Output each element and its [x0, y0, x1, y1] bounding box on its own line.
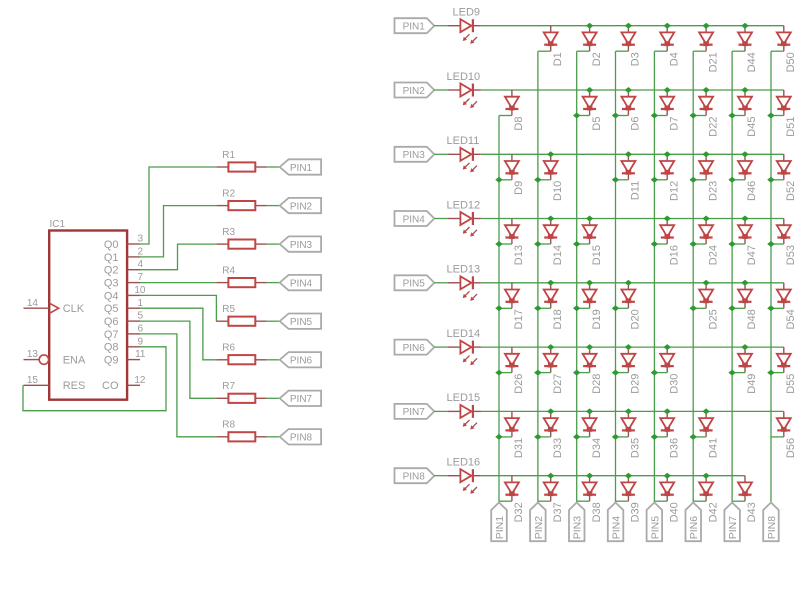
diode D42	[699, 476, 719, 523]
junction	[625, 408, 632, 414]
svg-text:PIN6: PIN6	[403, 343, 426, 354]
wire D8 cathode jog	[499, 115, 512, 117]
svg-text:D28: D28	[591, 374, 603, 394]
wire D51 cathode jog	[771, 115, 784, 117]
node PIN4 output flag	[280, 275, 321, 290]
node PIN8 output flag	[280, 429, 321, 444]
svg-text:Q3: Q3	[104, 277, 119, 289]
svg-text:D10: D10	[552, 181, 564, 201]
LED LED10	[447, 71, 481, 108]
junction	[573, 241, 580, 247]
resistor R6	[216, 343, 266, 365]
svg-text:6: 6	[137, 323, 143, 334]
wire D41 cathode jog	[693, 436, 706, 438]
svg-text:D33: D33	[552, 438, 564, 458]
diode D3	[621, 26, 641, 67]
diode D18	[544, 283, 564, 330]
wire D40 cathode jog	[654, 500, 667, 502]
diode D22	[699, 90, 719, 137]
svg-text:D41: D41	[707, 438, 719, 458]
node PIN6 column flag	[686, 503, 702, 542]
wire R5 to PIN5	[267, 320, 280, 322]
wire D15 cathode jog	[577, 243, 590, 245]
wire D4 cathode jog	[654, 50, 667, 52]
svg-text:D22: D22	[707, 117, 719, 137]
junction	[612, 305, 619, 311]
wire D42 cathode jog	[693, 500, 706, 502]
svg-text:D38: D38	[591, 502, 603, 522]
svg-text:LED9: LED9	[453, 7, 481, 19]
junction	[702, 408, 709, 414]
svg-text:D29: D29	[630, 374, 642, 394]
svg-text:D15: D15	[591, 245, 603, 265]
junction	[690, 177, 698, 183]
diode D34	[583, 411, 603, 458]
junction	[573, 305, 580, 311]
svg-text:Q0: Q0	[104, 239, 119, 251]
diode D55	[777, 347, 797, 394]
wire PIN4 flag to LED12	[434, 218, 448, 220]
junction	[612, 177, 619, 183]
svg-text:D31: D31	[513, 438, 525, 458]
wire D24 cathode jog	[693, 243, 706, 245]
wire D56 cathode jog	[771, 436, 784, 438]
junction	[495, 241, 502, 247]
svg-text:14: 14	[27, 298, 39, 309]
wire D12 cathode jog	[654, 179, 667, 181]
wire D55 cathode jog	[771, 372, 784, 374]
pin 4 (Q2)	[127, 259, 143, 270]
svg-text:D7: D7	[669, 117, 681, 131]
wire D46 cathode jog	[732, 179, 745, 181]
wire D50 cathode jog	[771, 50, 784, 52]
svg-text:D55: D55	[785, 374, 797, 394]
node PIN1 row flag	[395, 18, 435, 33]
diode D47	[738, 219, 758, 266]
diode D38	[583, 476, 603, 523]
svg-text:D46: D46	[746, 181, 758, 201]
pin 6 (Q7)	[127, 323, 143, 334]
junction	[728, 305, 735, 311]
wire Q4 to R5	[140, 295, 216, 321]
svg-text:D18: D18	[552, 309, 564, 329]
diode D51	[777, 90, 797, 137]
svg-text:D24: D24	[707, 245, 719, 265]
node PIN5 row flag	[395, 275, 435, 290]
diode D8	[505, 90, 525, 131]
pin 2 (Q1)	[127, 246, 143, 257]
junction	[586, 473, 593, 479]
svg-text:D8: D8	[513, 117, 525, 131]
wire column 6	[692, 51, 694, 502]
svg-text:Q4: Q4	[104, 290, 119, 302]
svg-text:3: 3	[137, 234, 143, 245]
LED LED15	[447, 392, 481, 429]
pin 11 (Q9)	[127, 349, 146, 360]
wire D33 cathode jog	[538, 436, 551, 438]
svg-text:PIN3: PIN3	[290, 240, 313, 251]
IC IC1 decade counter body	[49, 219, 127, 400]
pin 3 (Q0)	[127, 234, 143, 245]
diode D30	[660, 347, 680, 394]
svg-text:D40: D40	[669, 502, 681, 522]
junction	[728, 241, 735, 247]
junction	[612, 370, 619, 376]
pin 15 (RES)	[24, 375, 50, 386]
wire D47 cathode jog	[732, 243, 745, 245]
svg-text:D44: D44	[746, 52, 758, 72]
svg-text:D43: D43	[746, 502, 758, 522]
svg-text:D53: D53	[785, 245, 797, 265]
wire Q1 to R2	[140, 206, 216, 257]
svg-text:LED16: LED16	[447, 457, 481, 469]
svg-text:R3: R3	[222, 227, 235, 238]
svg-text:D50: D50	[785, 52, 797, 72]
junction	[651, 113, 658, 119]
svg-text:D45: D45	[746, 117, 758, 137]
pin 13 (ENA) with inverter bubble	[24, 349, 49, 364]
wire column 3	[576, 51, 578, 502]
svg-text:PIN5: PIN5	[290, 317, 313, 328]
svg-text:D36: D36	[669, 438, 681, 458]
node PIN3 output flag	[280, 236, 321, 251]
svg-text:D49: D49	[746, 374, 758, 394]
junction	[651, 241, 658, 247]
junction	[702, 216, 709, 222]
wire D28 cathode jog	[577, 372, 590, 374]
junction	[625, 151, 632, 157]
svg-text:D27: D27	[552, 374, 564, 394]
svg-text:4: 4	[137, 259, 143, 270]
svg-text:7: 7	[137, 272, 143, 283]
diode D21	[699, 26, 719, 73]
svg-text:PIN3: PIN3	[572, 516, 584, 540]
svg-text:D54: D54	[785, 309, 797, 329]
diode D36	[660, 411, 680, 458]
diode D26	[505, 347, 525, 394]
svg-text:PIN1: PIN1	[403, 22, 426, 33]
node PIN7 column flag	[724, 503, 740, 542]
node PIN1 column flag	[491, 503, 507, 542]
wire D23 cathode jog	[693, 179, 706, 181]
svg-text:D35: D35	[630, 438, 642, 458]
pin 10 (Q4)	[127, 285, 146, 296]
junction	[728, 370, 735, 376]
svg-text:PIN2: PIN2	[533, 516, 545, 540]
node PIN7 row flag	[395, 404, 435, 419]
node PIN4 column flag	[608, 503, 624, 542]
wire Q8 to RES feedback	[23, 347, 166, 411]
diode D25	[699, 283, 719, 330]
svg-text:D4: D4	[669, 52, 681, 66]
diode D27	[544, 347, 564, 394]
svg-text:D48: D48	[746, 309, 758, 329]
wire D49 cathode jog	[732, 372, 745, 374]
svg-text:Q5: Q5	[104, 303, 119, 315]
wire D37 cathode jog	[538, 500, 551, 502]
svg-text:11: 11	[135, 349, 146, 360]
junction	[547, 280, 554, 286]
junction	[664, 408, 672, 414]
wire D11 cathode jog	[616, 179, 629, 181]
junction	[741, 87, 749, 93]
diode D9	[505, 154, 525, 195]
wire D21 cathode jog	[693, 50, 706, 52]
diode D12	[660, 154, 680, 201]
svg-text:PIN2: PIN2	[290, 201, 313, 212]
svg-text:D13: D13	[513, 245, 525, 265]
svg-text:12: 12	[134, 375, 146, 386]
wire D17 cathode jog	[499, 307, 512, 309]
svg-text:D42: D42	[707, 502, 719, 522]
junction	[573, 434, 580, 440]
junction	[534, 434, 542, 440]
svg-text:R4: R4	[222, 265, 235, 276]
wire R3 to PIN3	[267, 243, 280, 245]
junction	[586, 344, 593, 350]
junction	[664, 23, 672, 29]
junction	[690, 113, 698, 119]
diode D4	[660, 26, 680, 67]
svg-text:LED14: LED14	[447, 328, 481, 340]
node PIN2 column flag	[530, 503, 546, 542]
wire D3 cathode jog	[616, 50, 629, 52]
junction	[702, 23, 709, 29]
svg-text:D1: D1	[552, 52, 564, 66]
svg-text:R6: R6	[222, 343, 235, 354]
resistor R3	[216, 227, 266, 249]
junction	[741, 344, 749, 350]
diode D37	[544, 476, 564, 523]
svg-text:D32: D32	[513, 502, 525, 522]
junction	[495, 305, 502, 311]
junction	[495, 177, 502, 183]
junction	[625, 344, 632, 350]
svg-text:D37: D37	[552, 502, 564, 522]
junction	[664, 344, 672, 350]
node PIN8 column flag	[763, 503, 779, 542]
svg-text:PIN5: PIN5	[649, 516, 661, 540]
svg-text:ENA: ENA	[63, 355, 86, 367]
diode D13	[505, 219, 525, 266]
svg-text:LED13: LED13	[447, 264, 481, 276]
svg-text:LED11: LED11	[447, 135, 480, 147]
wire R4 to PIN4	[267, 282, 280, 284]
node PIN5 column flag	[647, 503, 663, 542]
wire PIN1 flag to LED9	[434, 25, 448, 27]
junction	[664, 151, 672, 157]
wire row 5	[481, 282, 784, 284]
resistor R1	[216, 150, 266, 172]
svg-text:LED15: LED15	[447, 392, 481, 404]
wire D35 cathode jog	[616, 436, 629, 438]
wire D26 cathode jog	[499, 372, 512, 374]
wire column 4	[615, 51, 617, 502]
svg-text:D12: D12	[669, 181, 681, 201]
junction	[690, 305, 698, 311]
junction	[534, 177, 542, 183]
wire D9 cathode jog	[499, 179, 512, 181]
svg-text:D26: D26	[513, 374, 525, 394]
junction	[664, 216, 672, 222]
svg-text:PIN1: PIN1	[290, 163, 313, 174]
junction	[625, 23, 632, 29]
diode D6	[621, 90, 641, 131]
svg-text:Q1: Q1	[104, 252, 119, 264]
resistor R8	[216, 420, 266, 442]
pin 1 (Q5)	[127, 298, 143, 309]
wire Q5 to R6	[140, 308, 216, 360]
svg-text:D25: D25	[707, 309, 719, 329]
wire D36 cathode jog	[654, 436, 667, 438]
wire D52 cathode jog	[771, 179, 784, 181]
wire row 1	[481, 25, 784, 27]
junction	[586, 87, 593, 93]
diode D17	[505, 283, 525, 330]
junction	[690, 241, 698, 247]
junction	[495, 370, 502, 376]
wire R6 to PIN6	[267, 359, 280, 361]
node PIN5 output flag	[280, 314, 321, 329]
junction	[573, 113, 580, 119]
wire Q7 to R8	[140, 334, 216, 437]
resistor R2	[216, 188, 266, 210]
diode D32	[505, 476, 525, 523]
svg-text:PIN8: PIN8	[290, 433, 313, 444]
svg-text:PIN8: PIN8	[766, 516, 778, 540]
junction	[573, 370, 580, 376]
svg-text:13: 13	[27, 349, 39, 360]
diode D50	[777, 26, 797, 73]
node PIN1 output flag	[280, 159, 321, 174]
junction	[651, 434, 658, 440]
wire column 8	[770, 51, 772, 502]
svg-text:D5: D5	[591, 117, 603, 131]
junction	[664, 473, 672, 479]
wire D27 cathode jog	[538, 372, 551, 374]
wire R2 to PIN2	[267, 205, 280, 207]
node PIN3 column flag	[569, 503, 585, 542]
junction	[741, 216, 749, 222]
junction	[767, 177, 775, 183]
svg-text:PIN3: PIN3	[403, 150, 426, 161]
junction	[702, 87, 709, 93]
junction	[767, 113, 775, 119]
wire row 3	[481, 153, 784, 155]
junction	[741, 23, 749, 29]
junction	[586, 408, 593, 414]
svg-text:PIN6: PIN6	[290, 356, 313, 367]
node PIN7 output flag	[280, 391, 321, 406]
svg-text:PIN1: PIN1	[494, 516, 506, 540]
junction	[586, 23, 593, 29]
diode D14	[544, 219, 564, 266]
svg-text:CO: CO	[102, 380, 119, 392]
wire D22 cathode jog	[693, 115, 706, 117]
svg-text:PIN2: PIN2	[403, 86, 426, 97]
junction	[767, 305, 775, 311]
wire Q6 to R7	[140, 321, 216, 398]
wire Q3 to R4	[140, 282, 216, 284]
svg-text:PIN4: PIN4	[290, 278, 313, 289]
svg-text:D21: D21	[707, 52, 719, 72]
node PIN8 row flag	[395, 468, 435, 483]
junction	[651, 177, 658, 183]
node PIN4 row flag	[395, 211, 435, 226]
svg-text:IC1: IC1	[50, 219, 66, 230]
diode D39	[621, 476, 641, 523]
wire row 7	[481, 410, 784, 412]
junction	[547, 408, 554, 414]
junction	[534, 305, 542, 311]
svg-text:RES: RES	[63, 380, 86, 392]
junction	[625, 280, 632, 286]
diode D16	[660, 219, 680, 266]
wire D7 cathode jog	[654, 115, 667, 117]
wire R7 to PIN7	[267, 397, 280, 399]
junction	[547, 151, 554, 157]
junction	[547, 344, 554, 350]
diode D5	[583, 90, 603, 131]
node PIN2 output flag	[280, 198, 321, 213]
wire D1 cathode jog	[538, 50, 551, 52]
junction	[728, 113, 735, 119]
diode D45	[738, 90, 758, 137]
svg-text:D14: D14	[552, 245, 564, 265]
diode D44	[738, 26, 758, 73]
diode D28	[583, 347, 603, 394]
svg-text:D23: D23	[707, 181, 719, 201]
svg-text:PIN6: PIN6	[688, 516, 700, 540]
diode D29	[621, 347, 641, 394]
wire row 4	[481, 218, 784, 220]
wire column 5	[653, 51, 655, 502]
svg-text:D51: D51	[785, 117, 797, 137]
svg-text:PIN4: PIN4	[610, 516, 622, 540]
pin 12 (CO)	[127, 375, 146, 386]
svg-text:D2: D2	[591, 52, 603, 66]
svg-text:D19: D19	[591, 309, 603, 329]
node PIN6 output flag	[280, 352, 321, 367]
junction	[586, 280, 593, 286]
svg-text:LED10: LED10	[447, 71, 481, 83]
diode D49	[738, 347, 758, 394]
diode D53	[777, 219, 797, 266]
diode D2	[583, 26, 603, 67]
junction	[612, 434, 619, 440]
resistor R4	[216, 265, 266, 287]
wire PIN7 flag to LED15	[434, 410, 448, 412]
wire R1 to PIN1	[267, 166, 280, 168]
junction	[625, 87, 632, 93]
pin 7 (Q3)	[127, 272, 143, 283]
svg-text:Q8: Q8	[104, 342, 119, 354]
svg-text:PIN5: PIN5	[403, 279, 426, 290]
svg-text:Q7: Q7	[104, 329, 119, 341]
wire D20 cathode jog	[616, 307, 629, 309]
wire D45 cathode jog	[732, 115, 745, 117]
svg-text:PIN8: PIN8	[403, 472, 426, 483]
svg-text:D47: D47	[746, 245, 758, 265]
diode D40	[660, 476, 680, 523]
wire PIN2 flag to LED10	[434, 89, 448, 91]
wire D31 cathode jog	[499, 436, 512, 438]
junction	[702, 280, 709, 286]
wire D16 cathode jog	[654, 243, 667, 245]
wire R8 to PIN8	[267, 436, 280, 438]
diode D46	[738, 154, 758, 201]
svg-text:LED12: LED12	[447, 199, 481, 211]
